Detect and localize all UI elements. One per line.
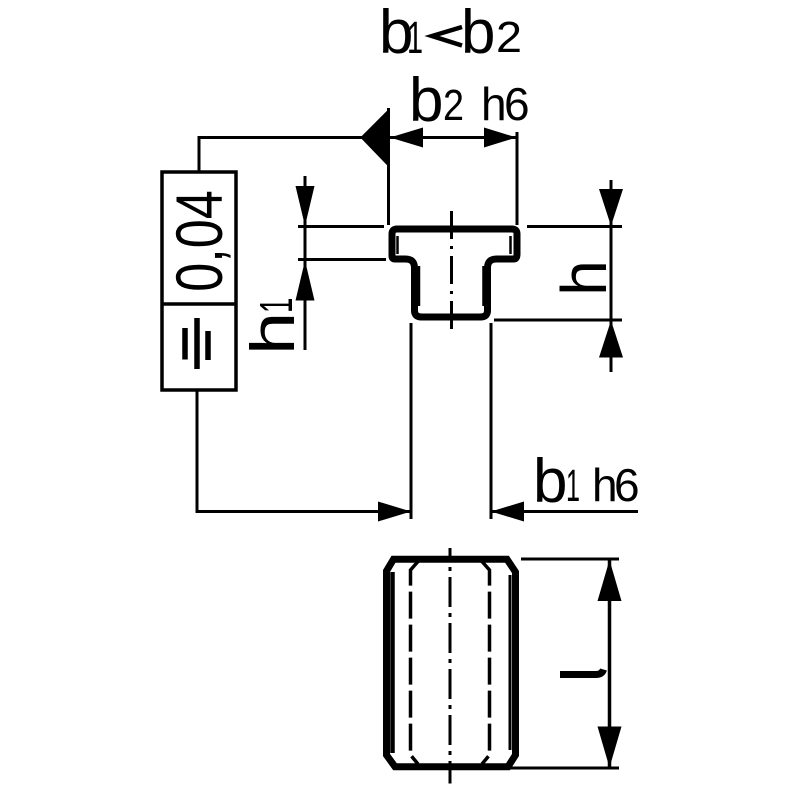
label b2 h6 (409, 66, 530, 135)
chamfer line head right (509, 236, 512, 254)
T-nut cross-section outline (392, 229, 517, 317)
hidden line stem left (411, 562, 419, 765)
svg-text:h: h (548, 260, 620, 296)
plan view outer outline (387, 559, 516, 767)
svg-text:1: 1 (407, 12, 423, 63)
extension line b2 right (516, 132, 519, 225)
hidden line stem right (482, 562, 490, 765)
label h1 (237, 298, 307, 355)
dimension h (599, 180, 623, 372)
chamfer line stem right (482, 266, 485, 306)
svg-text:b: b (409, 66, 443, 135)
svg-text:h: h (481, 78, 507, 130)
svg-text:b: b (533, 447, 567, 516)
chamfer line head left (396, 236, 399, 254)
dimension b1 arrows (378, 502, 638, 522)
leader from frame top to datum (199, 138, 362, 173)
dimension h1 (296, 176, 315, 350)
symmetry symbol (185, 318, 208, 369)
dimension line b2 (390, 128, 517, 148)
h extension line top (527, 225, 622, 228)
chamfer line stem left (418, 266, 421, 306)
centerline section view (450, 211, 453, 333)
svg-text:h: h (237, 312, 307, 355)
svg-text:b: b (461, 0, 495, 67)
label l (560, 670, 604, 675)
plan view chamfer line left (390, 572, 395, 753)
h1 extension line bottom (298, 258, 386, 261)
feature control frame (symmetry 0,04) (162, 172, 236, 390)
plan view chamfer line right (509, 575, 512, 750)
dimension l (598, 560, 622, 768)
svg-text:1: 1 (566, 460, 580, 511)
l extension line bottom (507, 767, 619, 770)
title note b1<b2 (379, 0, 522, 67)
centerline plan view (449, 548, 452, 784)
extension line b1 left (410, 323, 413, 519)
label b1 h6 (533, 447, 640, 516)
svg-text:2: 2 (443, 81, 464, 130)
h extension line bottom (494, 319, 622, 322)
h1 extension line top (298, 225, 384, 228)
svg-text:6: 6 (504, 78, 530, 130)
svg-text:0,04: 0,04 (162, 190, 236, 291)
svg-text:2: 2 (496, 13, 522, 62)
datum triangle on b2 extension line (361, 110, 389, 166)
leader from frame bottom to b1 dimension (197, 390, 411, 512)
svg-text:1: 1 (252, 298, 303, 313)
extension line b2 left (387, 108, 390, 225)
l extension line top (521, 558, 619, 561)
extension line b1 right (490, 323, 493, 519)
svg-text:6: 6 (614, 459, 640, 511)
